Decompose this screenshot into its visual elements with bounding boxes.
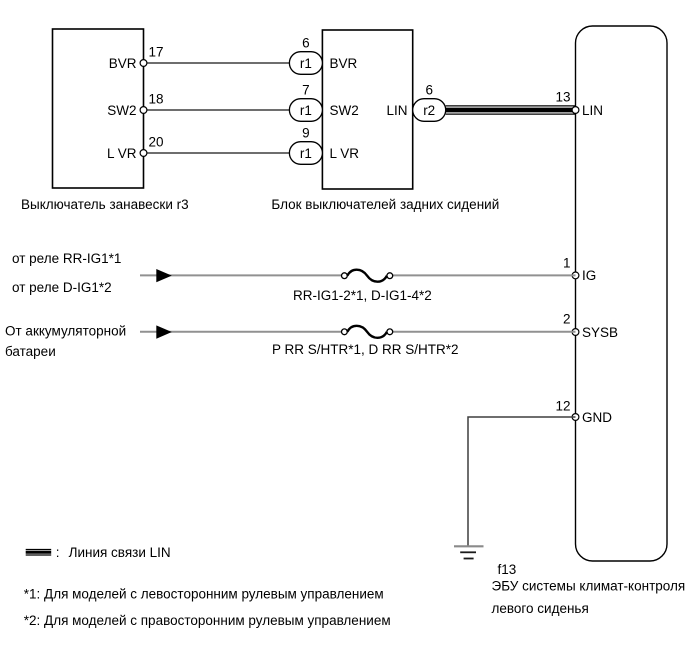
- svg-text:GND: GND: [582, 410, 612, 425]
- svg-text:Выключатель занавески r3: Выключатель занавески r3: [21, 197, 189, 212]
- svg-text:L VR: L VR: [330, 146, 360, 161]
- svg-text:13: 13: [555, 90, 570, 105]
- svg-text:BVR: BVR: [109, 56, 137, 71]
- svg-text:17: 17: [149, 45, 164, 60]
- svg-text:SYSB: SYSB: [582, 325, 618, 340]
- svg-text:r2: r2: [423, 103, 435, 118]
- svg-text:7: 7: [302, 83, 310, 98]
- svg-text:18: 18: [149, 92, 164, 107]
- svg-text:Блок выключателей задних сиден: Блок выключателей задних сидений: [271, 197, 499, 212]
- svg-text:Линия связи LIN: Линия связи LIN: [69, 545, 171, 560]
- svg-text:LIN: LIN: [582, 103, 603, 118]
- svg-text:r1: r1: [300, 56, 312, 71]
- svg-text:20: 20: [149, 135, 164, 150]
- svg-text:левого сиденья: левого сиденья: [492, 601, 589, 616]
- svg-text:IG: IG: [582, 268, 596, 283]
- svg-text:9: 9: [302, 126, 310, 141]
- svg-text:от реле RR-IG1*1: от реле RR-IG1*1: [12, 251, 121, 266]
- svg-text:ЭБУ системы климат-контроля: ЭБУ системы климат-контроля: [492, 579, 686, 594]
- svg-text:r1: r1: [300, 146, 312, 161]
- svg-text:f13: f13: [498, 562, 517, 577]
- svg-text:6: 6: [302, 36, 310, 51]
- svg-text:1: 1: [563, 256, 571, 271]
- svg-text:2: 2: [563, 312, 571, 327]
- svg-text:6: 6: [425, 83, 433, 98]
- svg-text:батареи: батареи: [5, 344, 56, 359]
- svg-text:r1: r1: [300, 103, 312, 118]
- svg-text:*1: Для моделей с левосторонни: *1: Для моделей с левосторонним рулевым …: [24, 587, 384, 602]
- svg-text:12: 12: [555, 399, 570, 414]
- svg-text:P RR S/HTR*1, D RR S/HTR*2: P RR S/HTR*1, D RR S/HTR*2: [272, 342, 459, 357]
- svg-text:L VR: L VR: [107, 146, 137, 161]
- svg-text::: :: [56, 545, 60, 560]
- svg-text:*2: Для моделей с правосторонн: *2: Для моделей с правосторонним рулевым…: [24, 613, 391, 628]
- svg-text:LIN: LIN: [386, 103, 407, 118]
- svg-text:От аккумуляторной: От аккумуляторной: [5, 323, 126, 338]
- svg-text:SW2: SW2: [107, 103, 136, 118]
- svg-text:RR-IG1-2*1, D-IG1-4*2: RR-IG1-2*1, D-IG1-4*2: [293, 288, 432, 303]
- svg-text:от реле D-IG1*2: от реле D-IG1*2: [12, 280, 112, 295]
- svg-text:BVR: BVR: [330, 56, 358, 71]
- svg-text:SW2: SW2: [330, 103, 359, 118]
